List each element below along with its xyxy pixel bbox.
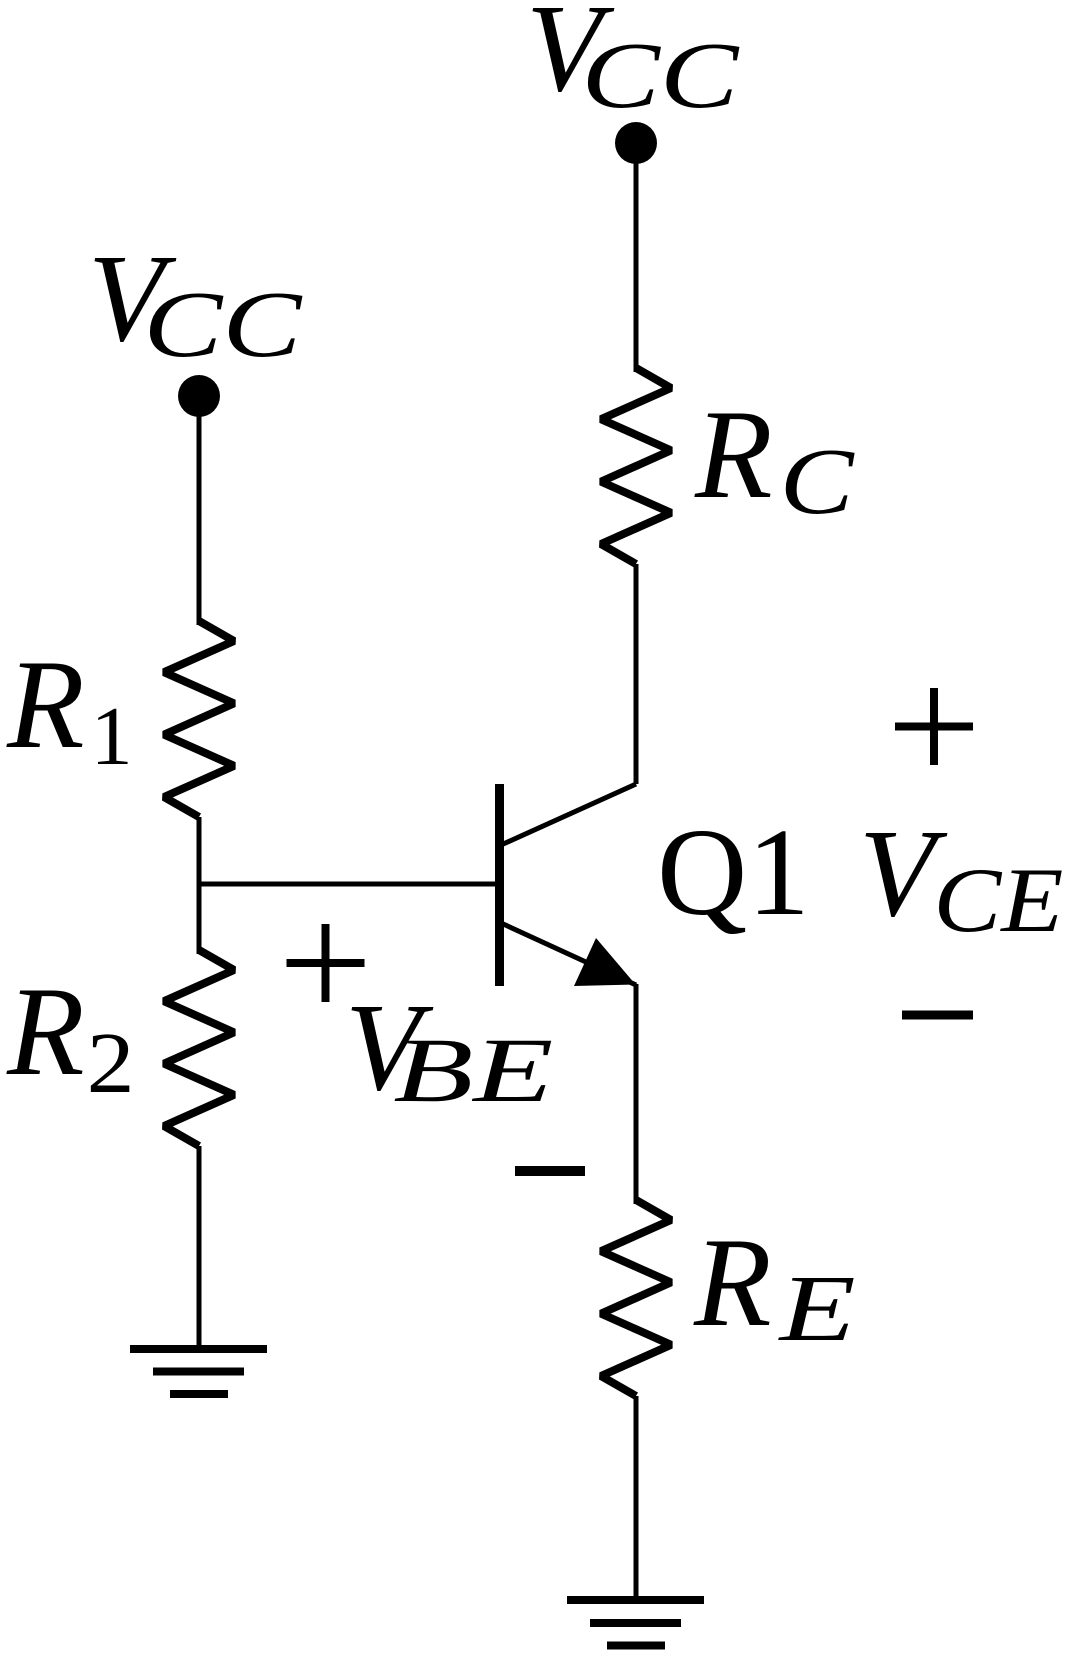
- transistor Q1: [495, 784, 636, 986]
- Q1 emitter lead: [501, 923, 636, 985]
- wire RE to ground: [634, 1396, 639, 1600]
- svg-text:VCC: VCC: [526, 0, 740, 128]
- resistor RC: [601, 368, 671, 564]
- node VCC top dot: [615, 122, 657, 164]
- svg-text:R2: R2: [6, 962, 135, 1111]
- label minus of VBE: [515, 1166, 585, 1176]
- ground (left): [130, 1349, 267, 1394]
- wire R1 to node B: [197, 817, 202, 954]
- Q1 base bar: [495, 784, 504, 986]
- wire RC to collector: [634, 564, 639, 784]
- wire VCC top to RC: [634, 143, 639, 372]
- resistor R1: [164, 621, 234, 817]
- svg-text:R1: R1: [6, 635, 133, 783]
- Q1 emitter arrow: [574, 938, 636, 986]
- svg-text:VCC: VCC: [88, 230, 303, 377]
- svg-text:VBE: VBE: [345, 979, 553, 1121]
- ground (right): [567, 1600, 704, 1646]
- svg-text:RE: RE: [693, 1213, 856, 1361]
- svg-text:VCE: VCE: [859, 805, 1063, 951]
- label + of VCE: [895, 688, 973, 765]
- resistor RE: [601, 1200, 671, 1396]
- svg-text:RC: RC: [694, 385, 855, 534]
- resistor R2: [164, 950, 234, 1146]
- wire R2 to ground: [197, 1146, 202, 1349]
- label minus of VCE: [902, 1011, 973, 1020]
- wire VCC left to R1: [197, 396, 202, 625]
- svg-text:Q1: Q1: [657, 804, 810, 942]
- node VCC left dot: [178, 375, 220, 417]
- wire base: [199, 882, 495, 887]
- wire emitter to RE: [634, 984, 639, 1204]
- label + of VBE: [287, 924, 365, 1002]
- Q1 collector lead: [501, 784, 636, 845]
